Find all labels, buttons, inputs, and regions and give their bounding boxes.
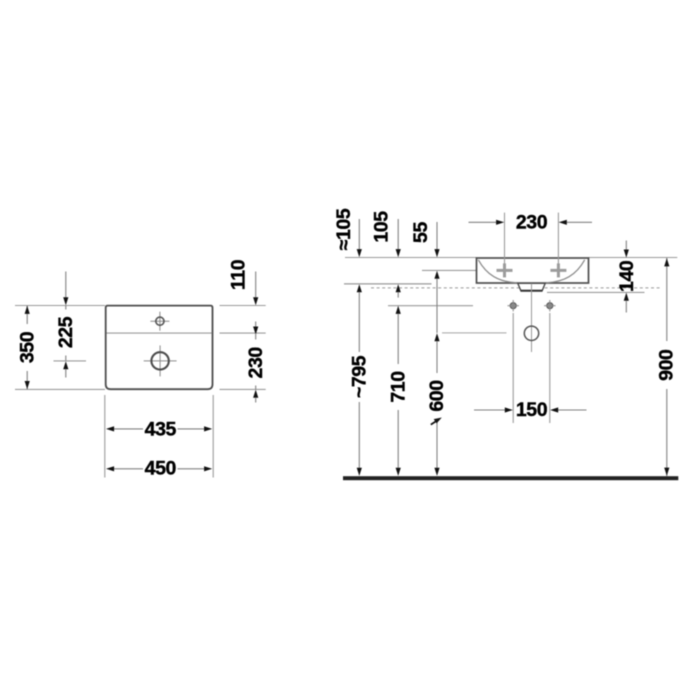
svg-text:710: 710 [388, 371, 410, 403]
vertical centerline through trap and drain [531, 284, 533, 353]
dim 230 extension verticals [504, 213, 506, 266]
floor line [343, 476, 678, 480]
svg-text:230: 230 [516, 211, 548, 233]
dim 230 line [255, 333, 257, 389]
svg-text:55: 55 [410, 222, 432, 243]
dash-dot reference line (wall/installation level) [371, 287, 661, 289]
drain centerlines [144, 360, 177, 362]
svg-text:900: 900 [656, 349, 678, 381]
bottom extension line left [15, 388, 105, 390]
trap / drain outlet [518, 283, 545, 290]
fixing hole extension verticals [512, 313, 514, 423]
extension line trap bottom (ref 140) [547, 291, 645, 293]
top extension line left [15, 305, 105, 307]
dim 350 line [26, 306, 28, 390]
dim 600 line [434, 333, 439, 341]
extension line basin-top left [345, 257, 477, 259]
basin outline (front view) [477, 258, 589, 283]
extension line basin-top right [589, 257, 678, 259]
dim 140 leader and arrows [625, 241, 627, 250]
dim ~795 line [358, 292, 360, 468]
fixing hole left [510, 303, 516, 309]
dim 450 line [114, 468, 143, 470]
extension line faucet level [422, 269, 477, 271]
extension line basin-bottom left (ref ~795) [344, 283, 432, 285]
svg-text:435: 435 [145, 418, 177, 440]
svg-text:350: 350 [17, 331, 39, 363]
drain hole [151, 352, 168, 369]
svg-text:225: 225 [55, 316, 77, 348]
dim 225 line [65, 272, 67, 298]
extension line fixing holes (ref 710) [388, 305, 473, 307]
svg-text:450: 450 [145, 457, 177, 479]
faucet cross right [550, 269, 566, 272]
rear ledge line [107, 332, 212, 334]
drain circle [524, 326, 538, 340]
svg-text:~795: ~795 [349, 355, 371, 398]
bottom extension line right [220, 388, 266, 390]
dim 150 line and arrows [474, 409, 505, 411]
dim 900 line [666, 258, 668, 476]
left bottom extension vertical [104, 395, 106, 478]
fixing hole right [547, 303, 553, 309]
svg-text:230: 230 [245, 347, 267, 379]
faucet hole centerlines [150, 320, 169, 322]
drain center tick [54, 360, 87, 362]
dim 110 line [255, 272, 257, 298]
dim 230 line and arrows [469, 221, 497, 223]
extension line drain level (ref 600) [442, 332, 507, 334]
dim 710 line [397, 314, 399, 468]
svg-text:≈105: ≈105 [333, 208, 355, 250]
svg-text:140: 140 [616, 260, 638, 292]
right bottom extension vertical [212, 395, 214, 478]
basin outline (plan view) [106, 306, 213, 390]
adjustable-height arrow mark [431, 420, 439, 425]
inner bowl curve [478, 260, 584, 283]
svg-text:105: 105 [371, 211, 393, 243]
svg-text:150: 150 [516, 399, 548, 421]
faucet hole [156, 317, 164, 325]
faucet cross left [497, 269, 513, 272]
dim 435 line [114, 428, 143, 430]
top extension line right [220, 305, 266, 307]
svg-text:600: 600 [426, 380, 448, 412]
svg-text:110: 110 [228, 259, 250, 290]
ledge level extension right [220, 332, 266, 334]
